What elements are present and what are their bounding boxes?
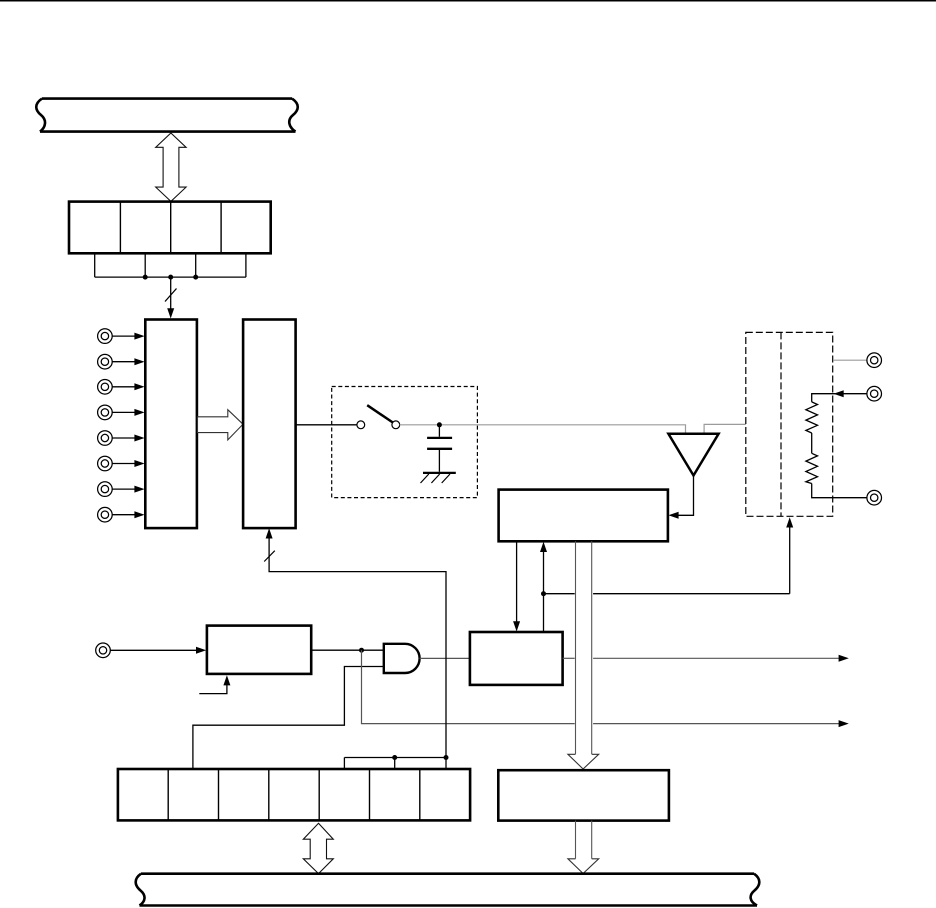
mode register block (7 cells)	[118, 769, 470, 820]
AND gate enable wire from register	[193, 667, 384, 770]
bus-width wire down into input selector	[170, 277, 172, 309]
ADC control block	[499, 490, 668, 542]
control wire up into ladder box	[789, 527, 791, 594]
input multiplexer block	[145, 320, 197, 529]
AVref wire (grey)	[833, 359, 867, 361]
stub wire into prescaler bottom	[199, 685, 227, 694]
reference top wire with arrow	[812, 394, 867, 402]
prescaler block	[207, 626, 311, 674]
bus width slash on selector control	[264, 551, 275, 562]
bidirectional bus arrow register to data bus	[303, 823, 333, 873]
resistor R upper	[806, 402, 818, 433]
8 analog input terminals with arrows	[98, 329, 113, 522]
bottom reference wire	[812, 484, 867, 498]
page top border rule	[0, 0, 936, 2]
sample selector block	[243, 320, 296, 529]
wire selector to switch	[296, 424, 357, 426]
bus interface register block (4 cells)	[69, 202, 271, 254]
selector control wire from register harness	[269, 537, 446, 758]
clock output wire right	[563, 657, 575, 659]
AND output grey wire	[420, 657, 470, 659]
node dot at hold capacitor	[437, 422, 442, 427]
AD conversion data register block	[498, 770, 669, 820]
hold capacitor	[438, 425, 440, 437]
series resistor ladder dashed box	[746, 332, 833, 516]
comparator output wire into ADC control	[671, 476, 694, 516]
wire ADC control to ladder (with junction)	[544, 593, 575, 595]
bus width slash	[165, 289, 177, 302]
junction dots	[143, 275, 148, 280]
AND gate	[384, 644, 420, 673]
up control wire SAR to ADC	[543, 551, 545, 632]
sample &amp; hold dashed box	[332, 387, 478, 498]
oscillator input terminal	[96, 643, 111, 658]
wide result bus data register to data bus (hollow)	[575, 821, 577, 859]
down control wire ADC to SAR	[516, 541, 518, 622]
prescaler output wire	[311, 649, 384, 651]
top internal bus (torn ends)	[36, 99, 298, 132]
sampled signal wire (light grey)	[400, 425, 686, 434]
wide result bus ADC to data register (hollow)	[575, 541, 577, 754]
SAR control block	[470, 632, 563, 685]
register harness wires	[344, 757, 446, 759]
switch contacts	[357, 421, 365, 429]
bottom internal data bus (torn ends)	[136, 874, 760, 906]
hollow block arrow mux to sample selector	[198, 410, 244, 440]
bidirectional bus arrow to interface block	[156, 133, 186, 201]
right terminals	[867, 353, 882, 505]
wire between resistors	[811, 433, 813, 453]
switch blade	[367, 405, 393, 422]
comparator triangle	[668, 434, 718, 476]
ground	[423, 472, 456, 474]
internal dashed divider	[780, 332, 782, 516]
resistor R lower	[806, 453, 818, 483]
wire terminal to prescaler	[110, 649, 196, 651]
grey clock wire down and right	[362, 650, 575, 723]
harness wires below interface block	[95, 253, 246, 277]
junction dot at AND input	[359, 648, 364, 653]
